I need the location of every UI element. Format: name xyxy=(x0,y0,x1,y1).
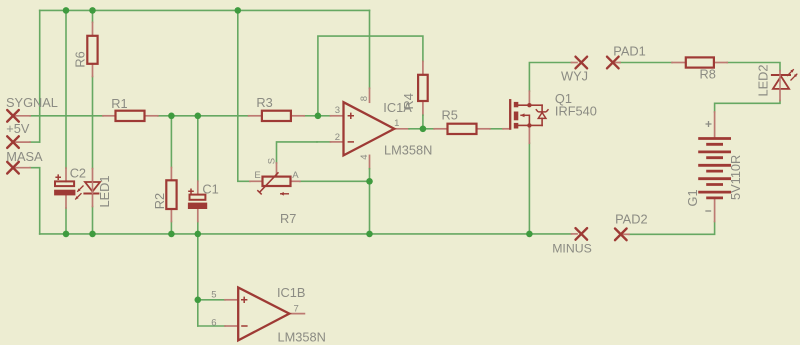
junction dots ground rail xyxy=(63,231,70,238)
pin stub IC1B pin7 output xyxy=(289,313,304,315)
svg-text:C2: C2 xyxy=(70,166,86,181)
svg-text:R7: R7 xyxy=(280,211,296,226)
pin stub IC1A pin1 xyxy=(394,128,409,130)
svg-text:G1: G1 xyxy=(685,189,700,206)
svg-text:S: S xyxy=(267,158,278,164)
wire +5V top rail xyxy=(40,9,370,11)
pin stub R7 wiper xyxy=(276,163,278,177)
pin stub SYGNAL pad xyxy=(13,115,30,117)
wire R6 LED1 column xyxy=(92,10,94,22)
pad WYJ xyxy=(576,57,588,69)
pin stubs C1 xyxy=(197,181,199,194)
wire R7 S wiper to pin2 xyxy=(277,142,318,163)
transistor Q1 IRF540 xyxy=(509,100,511,128)
pad MASA xyxy=(7,162,19,174)
wire ground rail xyxy=(40,233,572,235)
svg-text:4: 4 xyxy=(359,154,370,159)
svg-text:IC1B: IC1B xyxy=(277,285,305,300)
svg-text:R2: R2 xyxy=(152,193,167,209)
pin stub IC1A pin4 xyxy=(369,155,371,168)
battery G1 xyxy=(700,137,730,140)
LED LED1 xyxy=(85,182,100,192)
svg-text:PAD2: PAD2 xyxy=(615,212,647,227)
junction dot output node xyxy=(420,126,427,133)
pin stubs C2 xyxy=(65,168,67,181)
wire battery bottom to PAD2 xyxy=(629,222,715,235)
pin stub MINUS pad xyxy=(572,233,578,235)
pin stub +5V pad xyxy=(13,141,30,143)
capacitor C2 xyxy=(55,181,74,186)
svg-text:3: 3 xyxy=(335,105,340,116)
svg-text:2: 2 xyxy=(335,132,340,143)
wire top rail to R7 E terminal xyxy=(238,10,250,181)
svg-text:IRF540: IRF540 xyxy=(555,104,597,119)
junction dots SYGNAL row xyxy=(168,113,175,120)
pin stub IC1A pin3 xyxy=(318,115,331,117)
wire source to ground rail xyxy=(528,143,530,234)
wire drain to WYJ xyxy=(529,63,571,92)
wire positive feedback loop pin3 to R4 xyxy=(318,36,423,116)
resistor R3 xyxy=(262,111,291,121)
svg-text:PAD1: PAD1 xyxy=(613,43,645,58)
pin stubs R7 ends xyxy=(250,180,263,182)
wire output node xyxy=(421,128,434,130)
svg-text:LED2: LED2 xyxy=(756,64,771,96)
pin stubs IC1B inputs xyxy=(225,299,238,301)
svg-text:5: 5 xyxy=(211,289,216,300)
svg-text:5V110R: 5V110R xyxy=(728,155,743,200)
pad +5V xyxy=(7,136,19,148)
svg-text:MASA: MASA xyxy=(6,149,43,164)
pin stubs R8 xyxy=(672,62,686,64)
svg-text:R5: R5 xyxy=(442,108,458,123)
pin stub PAD2 xyxy=(621,233,629,235)
wire MASA to ground rail xyxy=(30,168,40,234)
svg-text:R8: R8 xyxy=(700,66,716,81)
junction dot R7 A pin4 xyxy=(366,178,373,185)
wire C2 column xyxy=(65,10,67,168)
wire +5V riser xyxy=(39,10,41,142)
resistor R1 xyxy=(116,111,145,121)
pin stubs R4 xyxy=(422,62,424,75)
trimmer R7 xyxy=(263,177,291,186)
svg-text:WYJ: WYJ xyxy=(561,69,588,84)
pin stub WYJ pad xyxy=(572,62,578,64)
svg-text:IC1A: IC1A xyxy=(383,100,412,115)
svg-text:LED1: LED1 xyxy=(97,175,112,207)
Q1 drain source dots xyxy=(527,103,531,107)
svg-text:LM358N: LM358N xyxy=(278,330,326,345)
wire R2 column xyxy=(170,116,172,168)
pin stubs R3 xyxy=(249,115,262,117)
wire pin8 riser xyxy=(369,10,371,88)
svg-text:R1: R1 xyxy=(111,96,127,111)
svg-text:7: 7 xyxy=(294,303,299,314)
svg-text:E: E xyxy=(254,170,260,181)
op-amp IC1B xyxy=(238,288,289,341)
resistor R6 xyxy=(87,36,97,64)
capacitor C1 xyxy=(190,195,206,200)
svg-text:MINUS: MINUS xyxy=(552,241,592,255)
pin stubs LED2 xyxy=(779,71,781,75)
resistor R4 xyxy=(418,75,428,101)
pin stub Q1 drain xyxy=(528,91,530,105)
pin stubs LED1 xyxy=(92,169,94,182)
pad PAD2 xyxy=(615,229,627,241)
svg-text:LM358N: LM358N xyxy=(384,143,432,158)
svg-text:C1: C1 xyxy=(202,181,218,196)
pad MINUS xyxy=(576,228,588,240)
pin stubs R6 xyxy=(92,22,94,35)
wire LED2 to battery top xyxy=(715,100,780,112)
resistor R8 xyxy=(686,57,714,67)
junction dots top rail xyxy=(63,7,70,14)
resistor R5 xyxy=(448,124,477,134)
svg-text:8: 8 xyxy=(359,96,370,101)
resistor R2 xyxy=(166,180,176,209)
wire SYGNAL xyxy=(30,115,103,117)
svg-text:SYGNAL: SYGNAL xyxy=(6,95,58,110)
svg-text:R3: R3 xyxy=(256,95,272,110)
pin stubs R2 xyxy=(170,168,172,181)
Q1 body diode xyxy=(529,104,542,106)
wire C1 column xyxy=(197,116,199,182)
svg-text:A: A xyxy=(292,170,299,181)
pin stub G1 minus xyxy=(714,198,716,222)
pin stubs R1 xyxy=(103,115,116,117)
pin stub MASA pad xyxy=(13,167,30,169)
svg-text:1: 1 xyxy=(394,118,399,129)
pin stub Q1 gate xyxy=(503,128,510,130)
pin stub Q1 source xyxy=(528,125,530,143)
wire R8 to LED2 xyxy=(727,63,780,71)
pin stub PAD1 xyxy=(613,62,620,64)
LED LED2 xyxy=(772,74,790,76)
pin stubs R5 xyxy=(434,128,447,130)
wire R3 to pin3 node xyxy=(304,115,318,117)
pin stub G1 plus xyxy=(714,112,716,139)
wire pin4 to ground rail xyxy=(369,181,371,234)
junction dot IC1B pin5 tee xyxy=(195,297,202,304)
pin stub IC1A pin8 xyxy=(369,88,371,102)
wire R1 to R3 segment xyxy=(158,115,249,117)
svg-text:6: 6 xyxy=(211,318,216,329)
wire PAD1 to R8 xyxy=(620,62,672,64)
svg-text:R6: R6 xyxy=(73,51,88,67)
wire R7 A terminal to pin4 line xyxy=(300,180,370,182)
svg-text:+5V: +5V xyxy=(6,121,30,136)
wire C1 node down to IC1B inputs xyxy=(197,234,199,326)
pad SYGNAL xyxy=(7,110,19,122)
pad PAD1 xyxy=(607,57,619,69)
pin stub IC1A pin2 xyxy=(317,141,331,143)
op-amp IC1A xyxy=(344,102,395,155)
wire R5 to gate xyxy=(490,128,503,130)
